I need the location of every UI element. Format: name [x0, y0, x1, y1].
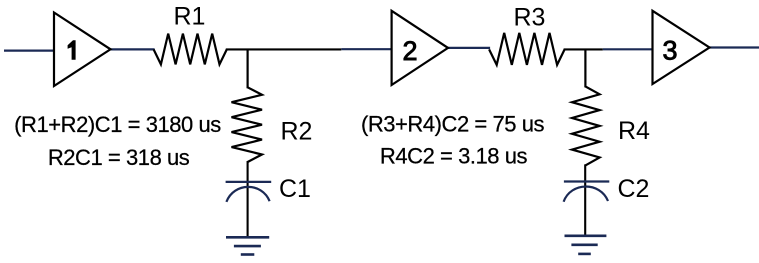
svg-text:C2: C2 [618, 175, 650, 203]
svg-text:R4C2 = 3.18 us: R4C2 = 3.18 us [380, 144, 528, 169]
svg-text:2: 2 [402, 36, 417, 66]
svg-text:3: 3 [662, 36, 677, 66]
svg-text:R1: R1 [174, 3, 206, 31]
svg-text:R3: R3 [514, 3, 546, 31]
svg-text:C1: C1 [279, 175, 311, 203]
svg-text:(R3+R4)C2 = 75 us: (R3+R4)C2 = 75 us [361, 112, 545, 137]
svg-text:R4: R4 [618, 117, 650, 145]
svg-text:R2C1 = 318 us: R2C1 = 318 us [48, 145, 190, 170]
svg-text:R2: R2 [281, 117, 313, 145]
svg-text:(R1+R2)C1 = 3180 us: (R1+R2)C1 = 3180 us [14, 112, 221, 137]
